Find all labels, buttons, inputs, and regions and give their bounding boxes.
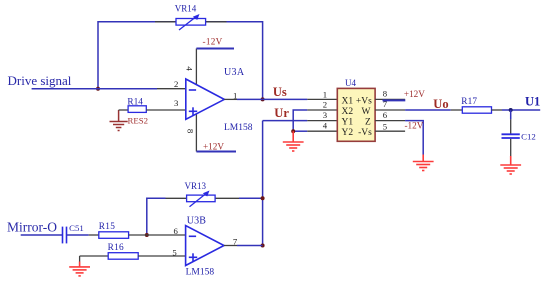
resistor R16 (80, 243, 186, 259)
node: junction VR13/Ur riser (261, 196, 265, 200)
svg-text:X2: X2 (342, 107, 354, 117)
svg-text:4: 4 (185, 66, 195, 71)
svg-text:Ur: Ur (274, 106, 289, 120)
wire: U3B output pin 7 (224, 237, 263, 247)
capacitor C12 (502, 110, 536, 156)
node U1 (509, 108, 513, 112)
wire: Mirror-O input (7, 219, 63, 235)
svg-text:2: 2 (323, 100, 327, 110)
svg-text:R14: R14 (127, 97, 143, 107)
svg-text:+12V: +12V (203, 142, 224, 152)
svg-text:LM158: LM158 (224, 123, 253, 133)
multiplier U4 (323, 78, 388, 141)
svg-text:6: 6 (383, 110, 388, 120)
svg-text:+Vs: +Vs (356, 96, 372, 106)
wire: U4 pin 6 (Z) to ground (375, 121, 423, 155)
ground (R14, dark red) (110, 110, 128, 131)
svg-text:U3A: U3A (224, 67, 245, 78)
svg-text:VR14: VR14 (175, 4, 197, 14)
svg-text:3: 3 (323, 110, 327, 120)
resistor VR14 (175, 4, 206, 30)
wire: U3A output pin 1 to Us node (224, 90, 262, 100)
op-amp U3A pin 4 with -12V rail (185, 37, 234, 86)
svg-text:R15: R15 (99, 222, 115, 232)
svg-text:8: 8 (186, 129, 196, 134)
svg-text:3: 3 (174, 98, 178, 108)
svg-text:5: 5 (172, 247, 176, 257)
op-amp U3A pin 8 with +12V rail (186, 114, 237, 152)
svg-text:RES2: RES2 (128, 115, 149, 125)
wire: R17 to U1 node (502, 95, 540, 112)
wire: U4 pin 7 (W) to Uo (375, 97, 451, 111)
resistor R15 (89, 222, 147, 238)
wire: U4 pin 8 to +12V (375, 89, 425, 100)
svg-text:X1: X1 (342, 96, 354, 106)
ground (R16) (69, 256, 90, 276)
svg-text:Y1: Y1 (342, 118, 354, 128)
resistor VR13 (185, 181, 216, 207)
svg-text:C12: C12 (521, 132, 536, 142)
svg-text:Z: Z (365, 118, 371, 128)
svg-text:LM158: LM158 (186, 268, 215, 278)
ground (Z pin) (413, 155, 434, 171)
svg-text:W: W (362, 107, 371, 117)
svg-text:U3B: U3B (187, 215, 207, 226)
svg-text:2: 2 (174, 79, 178, 89)
svg-text:Uo: Uo (433, 97, 448, 111)
wire: U4 pin 2 to ground drop (293, 110, 337, 131)
svg-text:Y2: Y2 (342, 128, 354, 138)
resistor R14 (119, 97, 187, 125)
svg-text:R16: R16 (108, 243, 124, 253)
resistor R17 (451, 97, 502, 113)
node: junction on Drive signal wire (96, 87, 100, 91)
svg-text:+12V: +12V (404, 89, 425, 99)
svg-text:-12V: -12V (203, 37, 223, 47)
wire: R15 junction to U3B pin 6 (147, 226, 186, 236)
svg-text:1: 1 (233, 90, 237, 100)
svg-text:8: 8 (383, 89, 388, 99)
svg-text:4: 4 (323, 120, 328, 130)
svg-text:U4: U4 (345, 78, 356, 88)
svg-text:Us: Us (273, 85, 287, 99)
ground (U4 pins 2,4) (283, 131, 304, 151)
wire: Drive signal to U3A pin 2 (8, 73, 187, 89)
svg-text:VR13: VR13 (185, 181, 207, 191)
svg-text:U1: U1 (525, 95, 540, 109)
wire: Ur riser from U3B output up to U4 pin 3 (263, 106, 338, 246)
op-amp U3B (186, 215, 224, 277)
svg-text:7: 7 (233, 237, 238, 247)
svg-text:-Vs: -Vs (358, 128, 372, 138)
svg-text:1: 1 (323, 90, 327, 100)
wire: VR13 feedback line (147, 198, 263, 235)
svg-text:Mirror-O: Mirror-O (7, 219, 57, 234)
node: junction R15/VR13 (145, 233, 149, 237)
svg-text:6: 6 (174, 226, 179, 236)
wire: U4 pin 4 to ground junction (291, 129, 337, 133)
op-amp U3A (186, 67, 253, 133)
node: junction Us at U3A output (261, 97, 265, 101)
node: junction U3B output (261, 244, 265, 248)
svg-text:R17: R17 (461, 97, 477, 107)
ground (C12) (500, 156, 521, 174)
svg-text:-12V: -12V (405, 121, 424, 131)
svg-text:Drive signal: Drive signal (8, 73, 72, 88)
wire: U4 pin 5 (-Vs) to -12V (375, 121, 424, 132)
svg-text:C51: C51 (69, 223, 84, 233)
wire: VR14 feedback loop (98, 22, 263, 100)
wire: Us node to U4 pin 1 (263, 85, 338, 99)
svg-text:5: 5 (383, 121, 387, 131)
capacitor C51 (63, 223, 89, 244)
